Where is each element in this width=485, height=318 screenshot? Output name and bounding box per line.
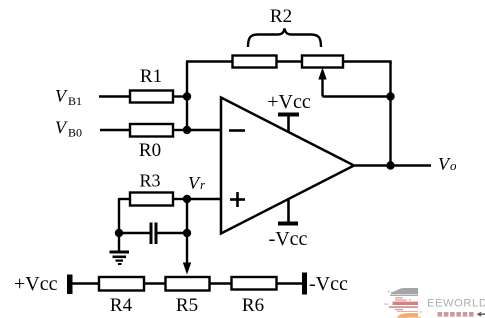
+Vcc terminal bar bottom left (67, 275, 73, 295)
svg-text:R3: R3 (139, 171, 160, 191)
node Vr junction dot (183, 195, 191, 203)
wire ground stem (118, 233, 120, 251)
node A junction dot lower (183, 126, 191, 134)
op-amp U1 (221, 98, 354, 234)
EEWORLD logo mark (384, 288, 422, 318)
potentiometer R2 wiper arrow (318, 68, 326, 97)
resistor R2 fixed section (233, 56, 277, 68)
svg-text:-Vcc: -Vcc (269, 228, 308, 250)
wire R5 to R6 (209, 282, 232, 284)
-Vcc terminal bar bottom right (302, 273, 307, 295)
wire node A to inverting input (187, 129, 221, 131)
pin minus symbol of U1 (229, 129, 245, 132)
svg-text:r: r (200, 177, 206, 192)
wire R1 to node A (172, 95, 187, 97)
svg-text:V: V (55, 118, 68, 138)
potentiometer R5 (166, 277, 210, 291)
wire R4 to R5 (143, 282, 166, 284)
svg-text:R4: R4 (110, 295, 133, 316)
wire left branch vertical (118, 198, 120, 233)
wire output (355, 164, 431, 166)
svg-text:V: V (55, 86, 68, 106)
wire left vertical from top rail to inverting node (186, 62, 188, 131)
wire R3 to node Vr (172, 198, 187, 200)
EEWORLD logo chinese tagline (438, 312, 474, 317)
capacitor C1 (150, 223, 158, 245)
wire pot wiper horizontal (323, 95, 391, 97)
resistor R0 (130, 124, 173, 137)
label Vo (438, 154, 457, 174)
wire R3 left lead (119, 198, 130, 200)
junction dot wiper feedback (386, 92, 394, 100)
wire VB0 input lead (100, 129, 130, 131)
wire node Vr to non-inverting input (187, 198, 221, 200)
wire top rail right segment to feedback corner (342, 62, 391, 65)
svg-text:B0: B0 (68, 126, 82, 140)
+Vcc supply symbol of U1 (278, 113, 299, 133)
wire R6 to -Vcc terminal (276, 282, 302, 284)
pin plus symbol of U1 (230, 192, 245, 207)
-Vcc supply symbol of U1 (278, 199, 298, 226)
label VB0 (55, 118, 82, 140)
svg-text:EEWORLD: EEWORLD (427, 298, 485, 310)
svg-text:+Vcc: +Vcc (267, 91, 311, 113)
wire feedback vertical down to output node (389, 62, 391, 166)
resistor R4 (99, 277, 144, 291)
resistor R6 (232, 277, 277, 290)
wire node Vr down to capacitor node (186, 199, 188, 233)
resistor R3 (130, 193, 173, 206)
svg-text:R2: R2 (270, 6, 292, 27)
label node Vr (188, 173, 206, 193)
svg-text:B1: B1 (68, 94, 82, 108)
svg-text:R5: R5 (176, 295, 198, 316)
wire capacitor left lead (119, 232, 150, 234)
svg-text:R1: R1 (140, 66, 162, 87)
svg-text:-Vcc: -Vcc (309, 273, 348, 295)
arrow from Vr node down to R5 wiper (183, 233, 191, 275)
wire capacitor right lead (157, 232, 187, 234)
wire between R2 fixed section and R2 pot section (275, 60, 302, 62)
svg-text:o: o (450, 158, 457, 173)
brace for R2 (248, 29, 321, 48)
wire VB1 input lead (99, 95, 130, 97)
node A junction dot upper (183, 92, 191, 100)
svg-text:R0: R0 (139, 140, 161, 161)
svg-text:R6: R6 (242, 295, 264, 316)
EEWORLD logo arrow (477, 312, 485, 317)
wire top rail left segment (186, 60, 233, 62)
wire +Vcc terminal to R4 (72, 282, 99, 284)
ground (110, 251, 130, 266)
junction dot capacitor left (115, 229, 123, 237)
label VB1 (55, 86, 82, 108)
resistor R1 (130, 91, 173, 103)
junction dot capacitor right (183, 229, 191, 237)
wire R0 to node A (172, 129, 187, 131)
svg-text:+Vcc: +Vcc (14, 273, 58, 295)
potentiometer R2 section (302, 56, 343, 68)
junction dot output node (386, 161, 394, 169)
